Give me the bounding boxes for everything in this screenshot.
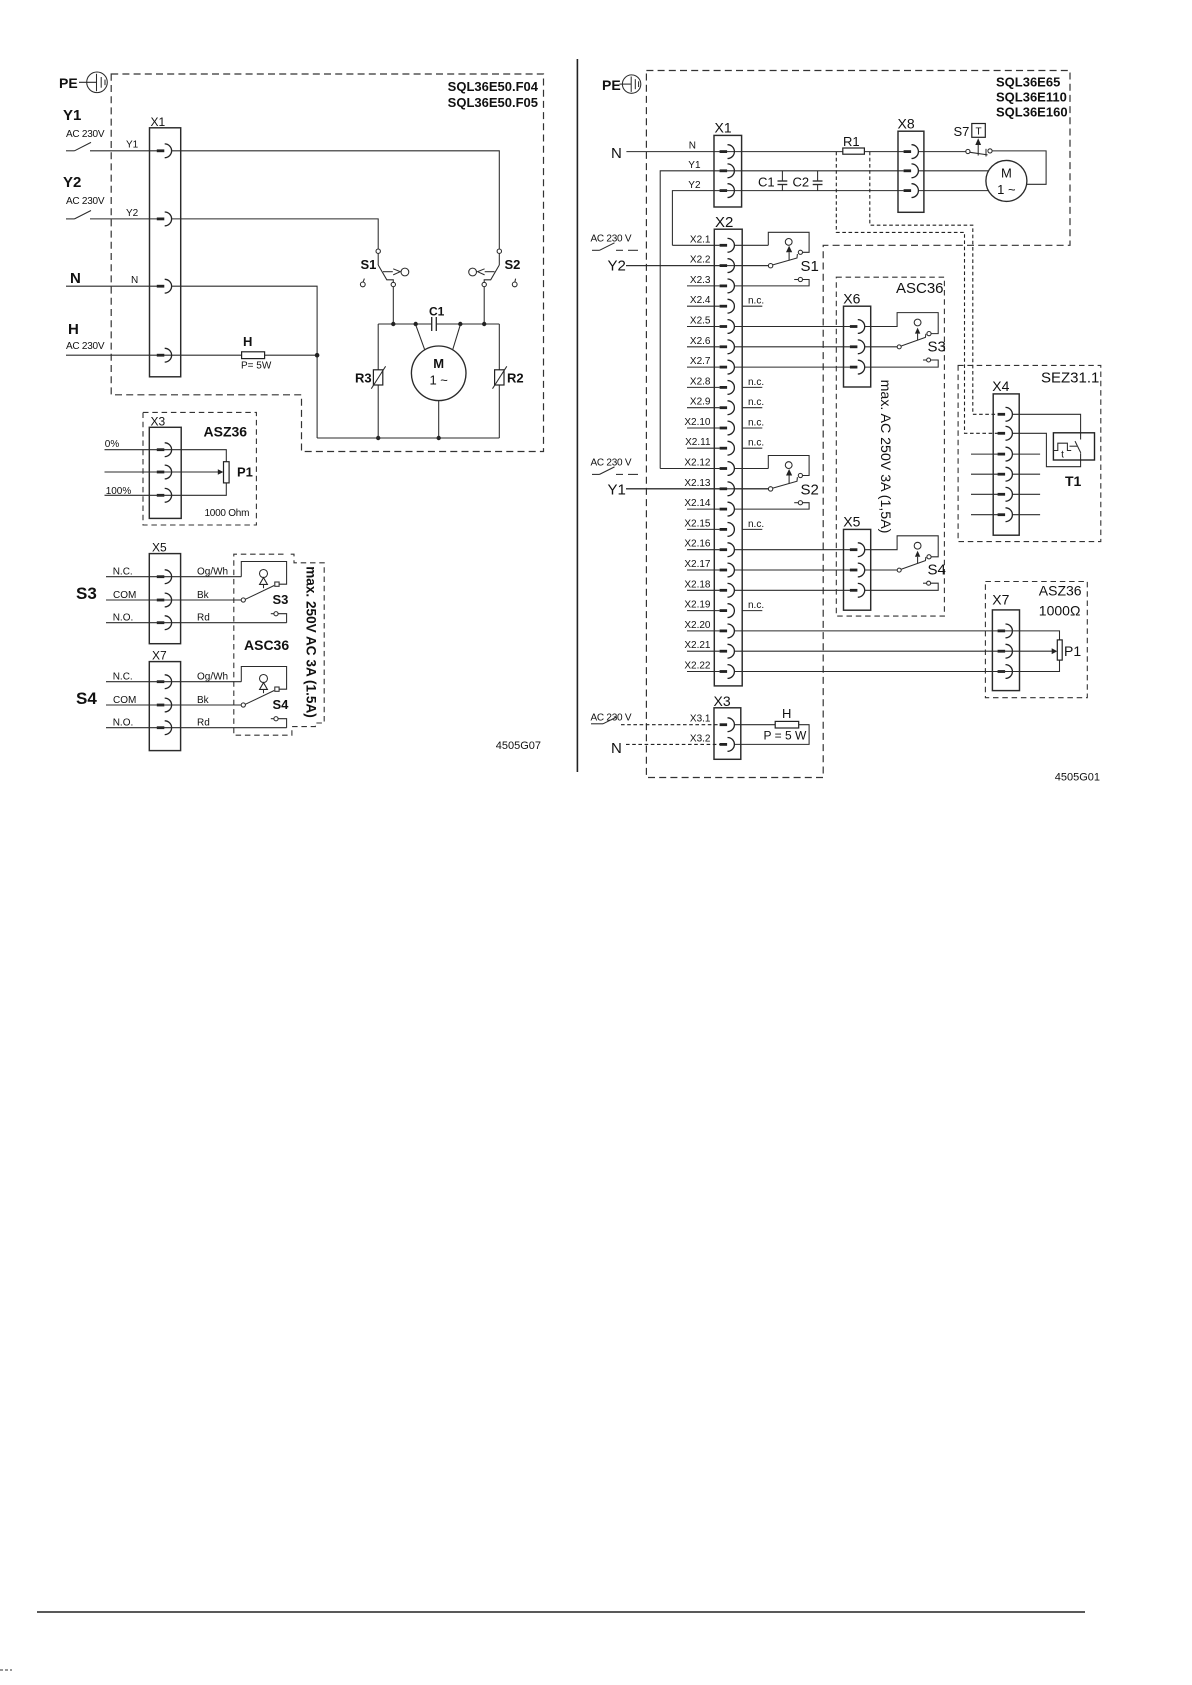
junction S1/rail: [391, 322, 395, 326]
svg-text:X2.8: X2.8: [690, 376, 711, 387]
connector X7 (left diagram): [149, 649, 180, 751]
terminal X1 Y2: [157, 212, 172, 226]
wire X2.13 left lead: [626, 488, 720, 490]
terminal X5 N.C.: [157, 570, 172, 584]
junction motor lead right: [458, 322, 462, 326]
terminal X3 wiper: [157, 465, 172, 479]
svg-text:X2.20: X2.20: [684, 620, 711, 631]
svg-text:N.C.: N.C.: [113, 672, 133, 683]
footer rule: [37, 1611, 1085, 1613]
svg-text:S1: S1: [801, 258, 819, 275]
limit switch S2 (left diagram): [469, 249, 521, 287]
terminal X1 Y2 (right): [720, 184, 735, 198]
wire X2.2 left lead: [626, 265, 720, 267]
svg-text:ASC36: ASC36: [244, 637, 289, 653]
svg-text:Y2: Y2: [126, 208, 139, 219]
connector X1 (left diagram): [150, 115, 181, 377]
wire X2.8 stub n.c.: [687, 386, 720, 388]
svg-text:max. 250V AC 3A (1.5A): max. 250V AC 3A (1.5A): [304, 566, 319, 718]
svg-text:P= 5W: P= 5W: [241, 361, 272, 372]
svg-text:Y1: Y1: [63, 107, 81, 124]
svg-text:X2.11: X2.11: [685, 437, 711, 448]
svg-text:AC 230 V: AC 230 V: [591, 713, 632, 724]
terminal X5 N.O.: [157, 616, 172, 630]
svg-text:S2: S2: [801, 481, 819, 498]
auxiliary switch S3 (left diagram): [241, 562, 288, 623]
terminal X1 Y1 (right): [720, 164, 735, 178]
wire Y2 from X1 to S1: [171, 219, 378, 249]
svg-text:X2.1: X2.1: [690, 234, 711, 245]
svg-text:X5: X5: [152, 541, 167, 555]
svg-text:t: t: [1061, 450, 1064, 461]
wire Y1 from X1 to S2: [171, 151, 499, 249]
wire N to motor (via S7): [992, 151, 1046, 184]
svg-text:X3: X3: [151, 414, 166, 428]
wire X5 N.C. Og/Wh: [106, 567, 241, 578]
svg-text:X2.5: X2.5: [690, 316, 711, 327]
svg-text:X2.3: X2.3: [690, 275, 711, 286]
svg-text:X5: X5: [843, 514, 860, 530]
svg-text:X6: X6: [843, 290, 860, 306]
terminal X4.5: [998, 487, 1013, 501]
svg-text:1 ~: 1 ~: [997, 182, 1016, 197]
terminal X6.2: [850, 340, 865, 354]
terminal X2.6: [720, 340, 735, 354]
terminal X2.13: [720, 482, 735, 496]
wire X2.7 left lead: [687, 366, 720, 368]
wire X4.1 to T1 contact: [1013, 414, 1081, 439]
terminal X4.2: [998, 426, 1013, 440]
wire N from X1 down to motor rail: [171, 286, 317, 438]
terminal X8.1: [904, 145, 919, 159]
svg-text:Og/Wh: Og/Wh: [197, 672, 228, 683]
varistor R3: [355, 324, 386, 438]
svg-text:X3: X3: [714, 693, 731, 709]
ASZ36 unit dashed box (right diagram): [985, 582, 1087, 698]
svg-text:n.c.: n.c.: [748, 377, 764, 388]
svg-text:X2.17: X2.17: [684, 559, 711, 570]
wire X2.18 left lead: [687, 589, 720, 591]
ASZ36 unit dashed box (left diagram): [143, 412, 256, 525]
switch S1 (right diagram): [735, 232, 819, 286]
terminal X2.9: [720, 401, 735, 415]
svg-text:SQL36E50.F05: SQL36E50.F05: [448, 95, 538, 110]
svg-text:N: N: [70, 270, 81, 287]
external input Y2 AC 230 V (right diagram): [591, 234, 769, 275]
motor M 1~ (left diagram): [411, 325, 466, 438]
svg-text:X2.19: X2.19: [684, 600, 711, 611]
terminal X4.4: [998, 467, 1013, 481]
wire S2 to motor rail: [483, 287, 485, 324]
svg-text:Y1: Y1: [688, 160, 701, 171]
svg-text:X2.18: X2.18: [684, 579, 711, 590]
terminal X2.17: [720, 563, 735, 577]
svg-text:N: N: [131, 275, 138, 286]
terminal X3.1: [720, 718, 735, 732]
svg-text:N.C.: N.C.: [113, 567, 133, 578]
actuator enclosure SQL36E50 (dashed box): [111, 74, 543, 452]
dashed wire from N line (right of R1) to X4.1: [870, 152, 999, 415]
wire 0% input: [105, 439, 227, 462]
svg-text:SQL36E50.F04: SQL36E50.F04: [448, 79, 539, 94]
terminal X8.2: [904, 164, 919, 178]
ASC36 dashed outline (left diagram): [234, 554, 324, 735]
terminal X7 N.O.: [157, 721, 172, 735]
terminal X1 N: [157, 279, 172, 293]
wire X4.2 to T1: [1013, 433, 1081, 466]
wire X2.11 stub n.c.: [687, 447, 720, 449]
svg-text:AC 230V: AC 230V: [66, 196, 105, 207]
svg-text:Rd: Rd: [197, 613, 210, 624]
svg-text:N: N: [689, 140, 696, 151]
wire X2.4 stub n.c.: [687, 305, 720, 307]
svg-text:SEZ31.1: SEZ31.1: [1041, 370, 1099, 387]
terminal X2.18: [720, 583, 735, 597]
svg-text:n.c.: n.c.: [748, 418, 764, 429]
svg-text:SQL36E160: SQL36E160: [996, 104, 1068, 119]
svg-text:SQL36E110: SQL36E110: [996, 89, 1067, 104]
wire wiper input with arrow: [105, 469, 224, 475]
svg-text:Y2: Y2: [63, 174, 81, 191]
svg-text:N.O.: N.O.: [113, 613, 134, 624]
svg-text:R1: R1: [843, 134, 860, 149]
svg-text:X2.4: X2.4: [690, 295, 711, 306]
terminal X8.3: [904, 184, 919, 198]
svg-text:P = 5 W: P = 5 W: [764, 729, 807, 743]
svg-text:1000Ω: 1000Ω: [1039, 603, 1081, 619]
PE earth terminal (right diagram): [602, 75, 641, 93]
junction motor/bottom rail: [437, 436, 441, 440]
terminal X2.2: [720, 259, 735, 273]
external input N (heater, right diagram): [611, 740, 720, 757]
motor M 1~ (right diagram): [919, 160, 1027, 201]
ASC36 dashed box (right diagram): [836, 277, 944, 616]
svg-text:X2: X2: [715, 214, 733, 231]
svg-text:max. AC 250V 3A (1,5A): max. AC 250V 3A (1,5A): [877, 380, 893, 534]
svg-text:PE: PE: [602, 77, 621, 93]
wire X2.15 stub n.c.: [687, 528, 720, 530]
column divider line: [576, 59, 578, 772]
terminal X5.3: [850, 583, 865, 597]
external input Y1 AC 230V with switch: [63, 107, 157, 151]
capacitor C2 (right diagram): [793, 171, 823, 191]
svg-text:PE: PE: [59, 75, 78, 91]
terminal X2.19: [720, 604, 735, 618]
wire X2.5 left lead: [687, 326, 720, 328]
wire X2.10 stub n.c.: [687, 427, 720, 429]
wire X2.14 left lead: [687, 508, 720, 510]
terminal X2.4: [720, 299, 735, 313]
switch S4 (right diagram): [864, 536, 946, 591]
connector X5 (left diagram): [149, 541, 180, 644]
svg-text:AC 230 V: AC 230 V: [591, 234, 632, 245]
svg-text:COM: COM: [113, 695, 136, 706]
svg-text:X2.15: X2.15: [684, 518, 711, 529]
svg-text:H: H: [243, 334, 252, 349]
connector X5 (right diagram): [843, 514, 870, 611]
svg-text:S4: S4: [76, 689, 97, 708]
svg-text:Y1: Y1: [126, 140, 139, 151]
svg-text:Y2: Y2: [608, 258, 626, 275]
type labels SQL36E65 SQL36E110 SQL36E160: [996, 75, 1068, 120]
terminal X2.1: [720, 238, 735, 252]
connector X8: [898, 116, 924, 213]
limit switch S1 (left diagram): [360, 249, 408, 287]
wire motor top rail (right segment): [436, 323, 499, 325]
terminal X1 Y1: [157, 144, 172, 158]
terminal X2.14: [720, 502, 735, 516]
svg-text:N: N: [611, 740, 622, 757]
connector X7 (right diagram): [992, 592, 1019, 691]
connector X4: [992, 378, 1019, 535]
svg-text:COM: COM: [113, 590, 136, 601]
switch S3 (right diagram): [864, 313, 946, 368]
wire X2.22 to P1 bottom: [735, 660, 1060, 671]
svg-text:X2.14: X2.14: [684, 498, 711, 509]
wires X2 to X6: [735, 327, 850, 368]
junction motor lead left: [414, 322, 418, 326]
thermal switch S7: [919, 124, 992, 157]
svg-text:R2: R2: [507, 371, 524, 386]
wire X2.22 left lead: [687, 671, 720, 673]
svg-text:H: H: [68, 321, 79, 338]
svg-text:AC 230V: AC 230V: [66, 129, 105, 140]
terminal X5.2: [850, 563, 865, 577]
junction R3/bottom rail: [376, 436, 380, 440]
terminal X5.1: [850, 543, 865, 557]
terminal X7.2 (right): [998, 644, 1013, 658]
external input Y1 AC 230 V (right diagram): [591, 458, 769, 499]
svg-text:C2: C2: [793, 175, 810, 190]
terminal X3 100%: [157, 488, 172, 502]
svg-text:Bk: Bk: [197, 695, 210, 706]
svg-text:R3: R3: [355, 371, 372, 386]
svg-text:X8: X8: [898, 116, 915, 132]
svg-text:T: T: [975, 126, 981, 137]
terminal X4.3: [998, 447, 1013, 461]
junction S2/rail: [482, 322, 486, 326]
svg-text:X3.2: X3.2: [690, 733, 711, 744]
svg-text:1000 Ohm: 1000 Ohm: [205, 508, 250, 519]
svg-text:N.O.: N.O.: [113, 718, 134, 729]
external input N: [66, 270, 157, 287]
svg-text:X7: X7: [992, 592, 1009, 608]
svg-text:S4: S4: [928, 562, 946, 579]
wire X2.19 stub n.c.: [687, 610, 720, 612]
external input Y2 AC 230V with switch: [63, 174, 157, 219]
svg-text:X1: X1: [151, 115, 166, 129]
wire X7 COM Bk: [106, 695, 241, 706]
svg-text:P1: P1: [237, 465, 253, 480]
wire X7 N.C. Og/Wh: [106, 672, 241, 683]
svg-text:0%: 0%: [105, 439, 120, 450]
external input AC 230 V (heater, right diagram): [591, 713, 720, 725]
terminal X2.3: [720, 279, 735, 293]
connector X3 (right diagram): [714, 693, 741, 760]
terminal X2.8: [720, 381, 735, 395]
wires X2 to X5: [735, 550, 850, 591]
terminal X2.10: [720, 421, 735, 435]
svg-text:X2.22: X2.22: [684, 661, 711, 672]
svg-text:Og/Wh: Og/Wh: [197, 567, 228, 578]
svg-text:P1: P1: [1064, 643, 1081, 659]
svg-text:X3.1: X3.1: [690, 714, 711, 725]
svg-text:M: M: [433, 356, 444, 371]
terminal X6.3: [850, 360, 865, 374]
svg-text:X2.9: X2.9: [690, 397, 711, 408]
wire X2.6 left lead: [687, 346, 720, 348]
page edge mark: [0, 1669, 12, 1671]
terminal X1 N (right): [720, 145, 735, 159]
svg-text:X2.16: X2.16: [684, 539, 711, 550]
svg-text:X2.12: X2.12: [684, 458, 711, 469]
wire X7 N.O. Rd: [106, 718, 287, 729]
capacitor C1 (right diagram): [758, 171, 787, 191]
terminal X7.1 (right): [998, 624, 1013, 638]
svg-text:X2.7: X2.7: [690, 356, 711, 367]
wire X2.20 to P1 top: [735, 631, 1060, 640]
X4.3-X4.6 stub wires: [971, 454, 1040, 515]
potentiometer P1 (right diagram): [1057, 640, 1081, 660]
svg-text:AC 230V: AC 230V: [66, 341, 105, 352]
svg-text:n.c.: n.c.: [748, 397, 764, 408]
svg-text:S2: S2: [505, 257, 521, 272]
wire X5 N.O. Rd: [106, 613, 287, 624]
auxiliary switch S4 (left diagram): [241, 667, 289, 728]
connector X1 (right diagram): [714, 120, 742, 208]
connector X6 (right diagram): [843, 290, 870, 387]
svg-text:N: N: [611, 145, 622, 162]
wire X2.21 left lead: [687, 650, 720, 652]
svg-text:S1: S1: [361, 257, 377, 272]
resistor H (heater, right diagram): [735, 706, 809, 744]
svg-text:X2.10: X2.10: [684, 417, 711, 428]
svg-text:X1: X1: [715, 120, 732, 136]
svg-text:S3: S3: [928, 339, 946, 356]
resistor H (heater) P=5W: [241, 334, 272, 372]
capacitor C1 (left diagram): [429, 305, 445, 332]
type labels SQL36E50.F04 / SQL36E50.F05: [448, 79, 539, 110]
terminal X6.1: [850, 320, 865, 334]
svg-text:X2.21: X2.21: [684, 640, 711, 651]
svg-text:4505G01: 4505G01: [1055, 772, 1100, 784]
terminal X2.11: [720, 441, 735, 455]
svg-text:H: H: [782, 706, 791, 721]
wire X2.16 left lead: [687, 549, 720, 551]
connector X2: [714, 214, 742, 686]
wire X2.20 left lead: [687, 630, 720, 632]
wire X2.17 left lead: [687, 569, 720, 571]
SEZ31.1 positioner dashed box: [958, 365, 1101, 541]
terminal X4.1: [998, 407, 1013, 421]
wire X2.1 left lead: [672, 244, 719, 246]
svg-text:X2.2: X2.2: [690, 255, 711, 266]
actuator enclosure SQL36E65/110/160 (dashed box): [646, 71, 1070, 778]
terminal X2.20: [720, 624, 735, 638]
svg-text:ASZ36: ASZ36: [204, 424, 248, 440]
terminal X2.7: [720, 360, 735, 374]
external input N (right diagram): [611, 145, 904, 162]
svg-text:T1: T1: [1065, 473, 1082, 489]
terminal X1 H: [157, 348, 172, 362]
switch S2 (right diagram): [735, 456, 819, 510]
svg-text:4505G07: 4505G07: [496, 740, 541, 752]
connector X3 (left diagram): [149, 414, 181, 518]
terminal X3.2: [720, 738, 735, 752]
potentiometer P1 (left diagram): [224, 462, 253, 483]
terminal X7.3 (right): [998, 665, 1013, 679]
svg-text:n.c.: n.c.: [748, 438, 764, 449]
terminal X2.12: [720, 462, 735, 476]
terminal X2.21: [720, 644, 735, 658]
wire 100% input: [105, 483, 227, 497]
dashed wire from N line (left of R1) to X4.2: [836, 152, 999, 434]
svg-text:Y1: Y1: [608, 482, 626, 499]
terminal X7 COM: [157, 698, 172, 712]
svg-text:n.c.: n.c.: [748, 519, 764, 530]
svg-text:X7: X7: [152, 649, 167, 663]
wire Y1 line to X8 and down to X2.12: [660, 171, 904, 469]
wire H from resistor to N drop: [265, 354, 318, 356]
wire X2.3 left lead: [687, 285, 720, 287]
svg-text:Rd: Rd: [197, 718, 210, 729]
svg-text:X2.6: X2.6: [690, 336, 711, 347]
svg-text:ASC36: ASC36: [896, 280, 944, 297]
terminal X4.6: [998, 508, 1013, 522]
terminal X2.5: [720, 320, 735, 334]
svg-text:S7: S7: [954, 124, 970, 139]
svg-text:n.c.: n.c.: [748, 600, 764, 611]
wire X2.12 left lead: [660, 468, 719, 470]
svg-text:C1: C1: [429, 305, 445, 319]
svg-text:ASZ36: ASZ36: [1039, 583, 1082, 599]
varistor R2: [493, 324, 524, 438]
svg-text:S4: S4: [273, 697, 290, 712]
svg-text:SQL36E65: SQL36E65: [996, 75, 1060, 90]
wire motor top rail (left segment): [378, 323, 432, 325]
terminal X2.15: [720, 523, 735, 537]
wire motor bottom rail: [317, 437, 499, 439]
junction N/H node: [315, 353, 320, 358]
svg-text:AC 230 V: AC 230 V: [591, 458, 632, 469]
svg-text:S3: S3: [76, 584, 97, 603]
svg-text:n.c.: n.c.: [748, 296, 764, 307]
svg-text:S3: S3: [273, 592, 289, 607]
svg-text:Y2: Y2: [688, 180, 701, 191]
wire X2.21 wiper with arrow: [735, 648, 1057, 654]
svg-text:M: M: [1001, 166, 1012, 181]
terminal X2.22: [720, 665, 735, 679]
external input H AC 230V: [66, 321, 242, 355]
terminal X5 COM: [157, 593, 172, 607]
svg-text:Bk: Bk: [197, 590, 210, 601]
PE earth terminal (left diagram): [59, 72, 107, 93]
svg-text:X2.13: X2.13: [684, 478, 711, 489]
svg-text:C1: C1: [758, 175, 775, 190]
wire S1 to motor rail: [392, 287, 394, 324]
terminal X3 0%: [157, 443, 172, 457]
resistor R1: [843, 134, 865, 154]
terminal X2.16: [720, 543, 735, 557]
terminal X7 N.C.: [157, 675, 172, 689]
timer relay T1: [1053, 433, 1094, 489]
svg-text:X4: X4: [992, 378, 1009, 394]
wire X5 COM Bk: [106, 590, 241, 601]
wire X2.9 stub n.c.: [687, 407, 720, 409]
svg-text:1 ~: 1 ~: [429, 373, 448, 388]
wire Y2 line to X8 and down to X2.1: [672, 191, 903, 246]
